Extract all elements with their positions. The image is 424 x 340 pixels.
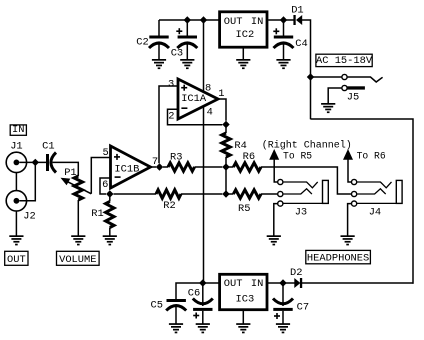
connector J2 (RCA output) [6,191,36,223]
capacitor C7 [273,283,309,324]
wire: R2 to feedback node [181,193,222,195]
svg-text:IC1A: IC1A [181,93,207,105]
wire: +V top rail from C2 to IC2 OUT [159,19,219,21]
ground (P1) [71,235,85,237]
wire: IC1B pin 6 stub [100,178,111,194]
resistor R2 [156,190,181,212]
wire: J3 sleeve to ground [274,204,278,236]
wire: +V rail down to IC1A pin 8 [203,20,205,92]
resistor R6 [226,151,261,171]
junction: +V rail tap [200,16,207,23]
connector J1 (RCA input) [6,141,26,173]
wire: D1 to AC bus corner [302,20,311,119]
svg-text:IN: IN [12,124,24,136]
ground (input jacks) [9,235,23,237]
capacitor C6 [188,283,213,324]
svg-text:OUT: OUT [224,278,243,290]
svg-text:HEADPHONES: HEADPHONES [307,252,369,264]
ground (IC3) [236,323,250,325]
junction: pin 7 node [156,163,163,170]
wire: -V bottom rail (C5 to IC3 OUT) [176,283,219,299]
arrow: To R5 (right channel tie) [269,149,312,167]
junction: feedback row node (R2/R5) [222,190,229,197]
svg-text:D2: D2 [290,267,302,279]
junction: output node (R3/R4) [222,163,229,170]
svg-text:D1: D1 [291,5,303,17]
junction: feedback node (pin1/pin2) [222,121,229,128]
junction: C7 / D2 node [279,279,286,286]
arrow: To R6 (right channel tie) [343,149,386,167]
wire: IC1B output to node [151,166,157,168]
label: OUT [5,251,28,265]
svg-text:8: 8 [205,82,211,94]
regulator IC2 [220,12,267,47]
diode D1 [291,5,303,25]
junction: C4 / IC2 IN node [280,16,287,23]
junction: J1 / J2 signal join [32,159,39,166]
regulator IC3 [220,274,267,309]
svg-text:C4: C4 [295,38,307,50]
label: IN [10,125,26,135]
ground (C7) [276,323,290,325]
wire: R5 to J3 ring [261,193,278,195]
capacitor C3 [171,20,198,60]
wire: R6 to J3 tip and J4 ring [261,167,351,194]
svg-text:IC1B: IC1B [114,163,139,175]
svg-text:C6: C6 [188,288,200,300]
wire: output node to feedback row [225,167,227,194]
svg-text:IC3: IC3 [236,294,255,306]
wire: pin 2 feedback loop [168,109,223,125]
wire: IC2 IN to D1 [268,19,293,21]
svg-text:J1: J1 [10,141,22,153]
wire: R3 to output node [195,166,223,168]
wire: P1 to ground [77,200,79,236]
svg-text:R6: R6 [243,151,255,163]
wire: pin 6 row to R2 [114,193,157,195]
junction: AC bus / J5 [307,73,314,80]
svg-text:C1: C1 [42,141,54,153]
capacitor C2 [136,20,169,60]
ground (J3) [267,235,281,237]
wire: IC3 ground lead [242,311,244,324]
wire: P1 wiper to IC1B pin 5 [91,158,110,194]
svg-text:5: 5 [103,147,109,159]
junction: pin 6 feedback node [106,190,113,197]
resistor R3 [163,151,195,171]
label: VOLUME [57,251,100,265]
svg-text:J5: J5 [347,91,359,103]
junction: C3 / top rail [184,16,191,23]
wire: IC3 IN to D2 [267,282,295,284]
svg-text:R2: R2 [163,200,175,212]
ground (C4) [276,59,290,61]
wire: C1 to P1 top [53,162,79,176]
svg-text:To R5: To R5 [283,151,312,162]
svg-text:3: 3 [168,78,174,90]
wire: IC2 ground lead [242,49,244,60]
svg-text:6: 6 [102,179,108,191]
ground (C6) [196,323,210,325]
diode D2 [290,267,302,288]
ground (IC2) [236,59,250,61]
headphone jack J3 [274,167,328,219]
capacitor C5 [151,299,187,324]
wire: J4 sleeve to ground [348,204,352,236]
potentiometer P1 [61,167,92,200]
svg-text:R1: R1 [91,208,103,220]
wire: J2 riser to junction [19,162,35,200]
svg-text:C2: C2 [136,37,148,49]
junction: IC3 OUT node [199,279,206,286]
svg-text:IN: IN [251,278,263,290]
svg-text:AC 15-18V: AC 15-18V [316,55,373,67]
svg-text:IC2: IC2 [236,29,255,41]
svg-text:R3: R3 [170,151,182,163]
svg-text:C7: C7 [297,301,309,313]
wire: J1-J2 shield link [15,173,17,191]
headphone jack J4 [348,167,402,219]
ground (C2) [152,59,166,61]
svg-text:J2: J2 [23,211,35,223]
ground (J4) [341,235,355,237]
svg-text:(Right Channel): (Right Channel) [262,139,352,151]
svg-text:1: 1 [218,88,224,100]
wire: AC bus right side [311,119,414,284]
resistor R1 [91,194,114,236]
svg-text:P1: P1 [64,167,76,179]
ground (C3) [180,59,194,61]
op-amp IC1A [168,78,225,122]
ground (J5) [321,103,335,105]
wire: IC1A output pin 1 [218,99,226,121]
wire: J1 to C1 [19,161,46,163]
wire: -V rail from IC1A pin 4 down [203,106,205,283]
svg-text:2: 2 [168,111,174,123]
resistor R5 [226,190,261,215]
svg-text:OUT: OUT [7,254,26,266]
svg-text:4: 4 [207,107,213,119]
svg-text:OUT: OUT [224,16,243,28]
wire: D2 to AC bus [302,282,414,284]
capacitor C1 [42,141,56,173]
resistor R4 [222,125,247,168]
op-amp IC1B [102,146,158,191]
label: HEADPHONES [306,250,371,263]
ground (C5) [169,323,183,325]
svg-text:C5: C5 [151,300,163,312]
wire: pin 7 riser to IC1A pin 3 [159,86,178,163]
ground (R1) [103,235,117,237]
svg-text:R5: R5 [238,203,250,215]
svg-text:J3: J3 [295,207,307,219]
wire: J2 shield to ground [15,211,17,236]
svg-text:C3: C3 [171,48,183,60]
label: AC 15-18V [316,54,372,66]
svg-text:J4: J4 [369,207,381,219]
svg-text:VOLUME: VOLUME [59,254,96,266]
power jack J5 [311,74,383,103]
svg-text:To R6: To R6 [357,151,386,162]
capacitor C4 [273,20,307,60]
svg-text:IN: IN [251,16,263,28]
